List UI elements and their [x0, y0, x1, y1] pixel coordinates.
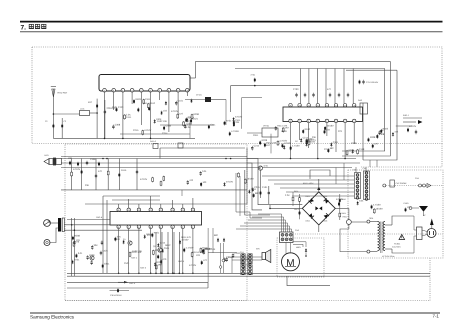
- svg-text:4.7/16V: 4.7/16V: [231, 130, 239, 133]
- svg-text:C118: C118: [359, 148, 365, 151]
- svg-text:C911: C911: [104, 262, 110, 265]
- svg-text:7.: 7.: [21, 24, 27, 31]
- svg-text:R721: R721: [226, 120, 232, 123]
- svg-text:R208: R208: [262, 139, 268, 142]
- svg-text:2.2K: 2.2K: [285, 194, 290, 197]
- svg-text:10/16V: 10/16V: [326, 125, 334, 128]
- svg-text:SW1-2: SW1-2: [131, 257, 138, 260]
- svg-text:D804: D804: [306, 220, 310, 223]
- svg-text:C911: C911: [253, 134, 259, 137]
- svg-text:R208: R208: [74, 235, 80, 238]
- svg-text:SW1-6: SW1-6: [150, 140, 156, 143]
- svg-text:CN6: CN6: [295, 229, 299, 232]
- svg-text:33K: 33K: [94, 244, 99, 247]
- svg-text:BR-1A 400V: BR-1A 400V: [303, 182, 314, 185]
- svg-text:P-801: P-801: [404, 202, 409, 205]
- svg-text:1K: 1K: [295, 140, 298, 143]
- svg-text:D803: D803: [323, 220, 327, 223]
- svg-text:R503: R503: [135, 98, 141, 101]
- svg-text:CN1: CN1: [240, 251, 244, 254]
- svg-text:SW2: SW2: [358, 99, 362, 102]
- svg-text:C215: C215: [133, 129, 139, 132]
- svg-text:C101: C101: [112, 106, 118, 109]
- svg-text:47/10V: 47/10V: [235, 116, 243, 119]
- svg-text:CF101: CF101: [196, 94, 202, 97]
- svg-text:R102 10K: R102 10K: [157, 120, 168, 123]
- svg-text:CAUTION: CAUTION: [392, 246, 401, 249]
- svg-text:Samsung Electronics: Samsung Electronics: [30, 314, 75, 319]
- svg-text:C521: C521: [102, 249, 108, 252]
- svg-text:SW1-3: SW1-3: [140, 267, 147, 270]
- svg-text:C411: C411: [145, 98, 151, 101]
- svg-text:0.01: 0.01: [202, 170, 207, 173]
- svg-text:33K: 33K: [312, 136, 317, 139]
- svg-text:D801: D801: [306, 195, 310, 198]
- svg-text:7-1: 7-1: [433, 314, 440, 319]
- svg-text:AC 240V 50Hz: AC 240V 50Hz: [382, 255, 395, 258]
- svg-text:SW1-4: SW1-4: [96, 216, 103, 219]
- svg-text:C308: C308: [379, 133, 385, 136]
- svg-text:C214: C214: [162, 132, 168, 135]
- svg-text:F801: F801: [343, 216, 347, 219]
- svg-text:10/16V: 10/16V: [308, 141, 316, 144]
- svg-text:C308: C308: [187, 123, 193, 126]
- svg-text:C308: C308: [115, 123, 121, 126]
- svg-text:C3: C3: [64, 120, 66, 123]
- svg-text:SW1-1: SW1-1: [158, 251, 165, 254]
- svg-text:C215: C215: [324, 148, 330, 151]
- svg-text:T801: T801: [369, 217, 373, 220]
- svg-text:2.2K: 2.2K: [186, 126, 191, 129]
- svg-text:CN5: CN5: [415, 177, 419, 180]
- svg-text:R802: R802: [294, 190, 298, 193]
- svg-text:C703: C703: [293, 88, 299, 91]
- svg-text:C521: C521: [192, 117, 198, 120]
- svg-text:ROD ANT: ROD ANT: [58, 92, 68, 95]
- svg-text:C308: C308: [351, 142, 357, 145]
- svg-text:R414 47K: R414 47K: [193, 251, 204, 254]
- svg-text:C215: C215: [254, 145, 260, 148]
- svg-text:C716 100/16V: C716 100/16V: [366, 81, 379, 84]
- svg-text:CN4: CN4: [363, 167, 367, 170]
- svg-text:R208: R208: [370, 136, 376, 139]
- svg-text:C30 470/16V: C30 470/16V: [110, 294, 122, 297]
- svg-text:Q701: Q701: [264, 165, 269, 168]
- svg-text:C521: C521: [124, 262, 130, 265]
- svg-text:CN2: CN2: [240, 263, 244, 266]
- svg-text:C101: C101: [262, 186, 268, 189]
- svg-text:C101: C101: [333, 141, 339, 144]
- svg-text:47/10V: 47/10V: [171, 110, 179, 113]
- svg-text:1K: 1K: [381, 129, 384, 132]
- svg-text:47/10V: 47/10V: [189, 264, 197, 267]
- svg-text:47/10V: 47/10V: [73, 168, 81, 171]
- svg-text:47/10V: 47/10V: [284, 142, 292, 145]
- svg-text:10/16V: 10/16V: [376, 207, 384, 210]
- svg-text:C101: C101: [178, 100, 184, 103]
- svg-text:10/16V: 10/16V: [247, 178, 255, 181]
- svg-text:47/10V: 47/10V: [409, 125, 417, 128]
- svg-text:4.7/16V: 4.7/16V: [292, 145, 300, 148]
- svg-text:47/10V: 47/10V: [336, 198, 344, 201]
- svg-text:2.2K: 2.2K: [126, 113, 131, 116]
- svg-text:33K: 33K: [85, 184, 90, 187]
- svg-text:C214: C214: [226, 256, 232, 259]
- svg-text:VR701: VR701: [263, 125, 270, 128]
- svg-text:C308: C308: [90, 158, 96, 161]
- svg-text:R721: R721: [154, 232, 160, 235]
- svg-text:C215: C215: [254, 186, 260, 189]
- svg-text:EAR-J: EAR-J: [403, 114, 409, 117]
- svg-text:4.7/16V: 4.7/16V: [186, 246, 194, 249]
- svg-text:R721: R721: [74, 258, 80, 261]
- svg-text:C2: C2: [45, 120, 47, 123]
- svg-text:R208: R208: [193, 113, 199, 116]
- svg-text:Q1: Q1: [123, 238, 126, 241]
- svg-text:4.7/16V: 4.7/16V: [373, 203, 381, 206]
- svg-text:47/10V: 47/10V: [144, 129, 152, 132]
- svg-text:R612: R612: [150, 102, 156, 105]
- svg-text:0.01: 0.01: [359, 200, 364, 203]
- svg-text:4.7/16V: 4.7/16V: [279, 139, 287, 142]
- svg-text:R612: R612: [305, 128, 311, 131]
- svg-text:C411: C411: [210, 123, 216, 126]
- svg-text:D802: D802: [323, 195, 327, 198]
- svg-text:R414 47K: R414 47K: [181, 236, 192, 239]
- svg-text:47/10V: 47/10V: [140, 178, 148, 181]
- svg-text:47/10V: 47/10V: [226, 181, 234, 184]
- svg-text:Q2: Q2: [153, 245, 156, 248]
- svg-text:M801: M801: [296, 246, 301, 249]
- svg-text:M: M: [286, 258, 294, 269]
- svg-text:CAP PROBE: CAP PROBE: [396, 182, 408, 185]
- svg-text:FS-801: FS-801: [394, 243, 400, 246]
- svg-text:C411: C411: [126, 116, 132, 119]
- svg-text:CN3: CN3: [353, 169, 357, 172]
- svg-text:1/50V: 1/50V: [281, 130, 287, 133]
- svg-text:C411: C411: [235, 119, 241, 122]
- svg-text:C703: C703: [118, 106, 124, 109]
- svg-text:0.01: 0.01: [78, 252, 83, 255]
- svg-text:R804: R804: [342, 212, 346, 215]
- svg-text:4R7: 4R7: [285, 126, 290, 129]
- svg-text:R102 10K: R102 10K: [132, 250, 143, 253]
- svg-text:R115: R115: [121, 169, 127, 172]
- svg-text:C521: C521: [164, 247, 170, 250]
- svg-text:JACK: JACK: [44, 154, 50, 157]
